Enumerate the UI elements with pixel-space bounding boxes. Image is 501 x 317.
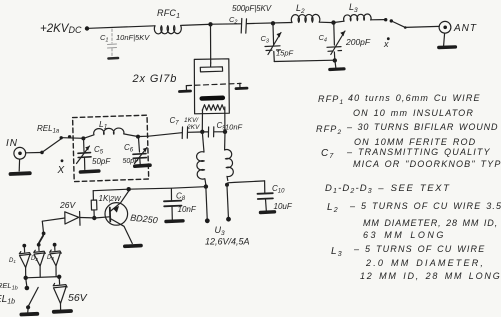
wire heater right leg down — [224, 107, 226, 131]
svg-text:2x GI7b: 2x GI7b — [132, 73, 178, 85]
wire supply to RFC1 — [89, 26, 155, 29]
node U3 left terminal — [205, 218, 210, 223]
svg-text:1K|2W: 1K|2W — [99, 194, 123, 203]
svg-text:U3: U3 — [215, 225, 226, 237]
tube cathode bar — [202, 96, 223, 101]
svg-text:x: x — [383, 39, 389, 49]
wire anode node to C2 — [213, 23, 241, 25]
inductor L3 — [344, 2, 372, 21]
diode zener 26V — [42, 200, 94, 225]
svg-text:C7: C7 — [321, 148, 334, 160]
svg-text:63 MM LONG: 63 MM LONG — [363, 230, 446, 240]
svg-text:C3: C3 — [261, 34, 270, 45]
wire IN to REL1a — [26, 152, 40, 154]
note RFP1 definition — [318, 93, 481, 118]
svg-text:REL1b: REL1b — [0, 281, 18, 292]
svg-text:– 5 TURNS OF CU WIRE: – 5 TURNS OF CU WIRE — [353, 244, 485, 254]
dashed box input tank — [73, 115, 149, 181]
svg-text:40 turns 0,6mm Cu WIRE: 40 turns 0,6mm Cu WIRE — [348, 93, 481, 103]
inductor RFP2 left filament choke — [197, 132, 206, 185]
svg-text:L2: L2 — [296, 3, 305, 15]
svg-text:500pF|5KV: 500pF|5KV — [232, 4, 272, 13]
tube heater zigzag — [202, 105, 224, 111]
tube V1 2x GI7b envelope — [132, 59, 230, 114]
svg-text:D1: D1 — [9, 258, 16, 264]
svg-text:C6: C6 — [124, 143, 134, 154]
node L2/L3/C4 junction — [331, 20, 335, 24]
note RFP2 definition — [316, 122, 498, 147]
svg-text:15pF: 15pF — [276, 49, 294, 58]
node cathode right / C9 — [223, 130, 227, 134]
svg-text:L2: L2 — [327, 202, 339, 214]
svg-text:BD250: BD250 — [130, 213, 158, 226]
node tank right junction — [136, 135, 140, 139]
label x mark near switch — [383, 37, 390, 49]
inductor RFP2 right filament choke — [225, 132, 234, 181]
svg-text:REL1a: REL1a — [37, 124, 60, 135]
wire C3 bottom to C4 bottom — [274, 60, 335, 61]
wire filament right to C10 — [228, 181, 265, 183]
svg-text:ON 10 mm INSULATOR: ON 10 mm INSULATOR — [353, 108, 474, 118]
svg-text:56V: 56V — [68, 292, 88, 304]
svg-text:C5: C5 — [94, 145, 104, 156]
wire L2 to L3 — [320, 21, 345, 22]
node tank left junction — [81, 136, 85, 140]
node anode junction — [208, 22, 212, 26]
wire filament left to U3 dot — [206, 188, 207, 219]
svg-text:RFC1: RFC1 — [157, 8, 180, 20]
svg-text:26V: 26V — [59, 200, 76, 210]
wire RFC1 to anode node — [182, 24, 209, 25]
wire 26V diode down to relay switch — [42, 221, 43, 231]
svg-text:IN: IN — [6, 138, 18, 149]
node cathode left / C7 — [200, 130, 204, 134]
capacitor C1 10nF/5KV bypass — [100, 29, 150, 59]
svg-text:– 30 TURNS BIFILAR WOUND: – 30 TURNS BIFILAR WOUND — [346, 122, 498, 132]
ground under C4 — [330, 61, 344, 70]
switch REL1b — [21, 286, 38, 315]
svg-text:MM DIAMETER, 28 MM ID,: MM DIAMETER, 28 MM ID, — [363, 218, 498, 228]
capacitor C3 15pF variable — [261, 25, 294, 62]
tube anode plate — [200, 63, 222, 72]
svg-text:+2KVDC: +2KVDC — [40, 23, 82, 35]
tube grid dashed line — [187, 83, 242, 85]
wire tank to C7 — [140, 135, 149, 137]
node collector rail at transistor — [127, 187, 131, 191]
wire node down to tube anode — [210, 26, 212, 63]
note D1-D2-D3 definition — [325, 183, 451, 195]
svg-text:2.0 MM DIAMETER,: 2.0 MM DIAMETER, — [365, 258, 485, 268]
switch REL1a — [37, 124, 71, 154]
label X mark under REL1a — [57, 159, 65, 176]
wire switch to ANT connector — [405, 26, 439, 27]
label REL1b left margin — [0, 281, 18, 306]
wire bus to REL1b contact — [25, 280, 28, 286]
inductor L1 — [83, 119, 137, 138]
resistor 1K 2W — [91, 194, 122, 217]
node supply input dot — [85, 26, 89, 30]
node U3 right terminal — [226, 217, 231, 222]
wire diode bus bottom — [26, 277, 60, 278]
svg-text:D1-D2-D3 – SEE TEXT: D1-D2-D3 – SEE TEXT — [325, 183, 451, 195]
svg-text:– TRANSMITTING QUALITY: – TRANSMITTING QUALITY — [346, 147, 491, 157]
svg-text:50pF: 50pF — [123, 158, 140, 165]
connector ANT — [439, 21, 477, 47]
svg-text:ON 10MM FERITE ROD: ON 10MM FERITE ROD — [354, 137, 476, 147]
wire L3 to antenna switch — [371, 19, 384, 21]
node C4 bottom — [333, 58, 337, 62]
svg-text:200pF: 200pF — [345, 37, 371, 47]
note L2 definition — [327, 201, 501, 240]
svg-text:– 5 TURNS OF CU WIRE 3.5: – 5 TURNS OF CU WIRE 3.5 — [349, 201, 501, 211]
svg-text:ANT: ANT — [453, 23, 477, 34]
svg-text:EL1b: EL1b — [0, 294, 15, 306]
switch REL1c to divider — [39, 232, 46, 244]
capacitor C7 input coupling — [149, 116, 201, 139]
label +2KVDC supply — [40, 23, 82, 35]
ground grid right — [236, 83, 247, 88]
svg-text:X: X — [57, 165, 65, 176]
svg-text:12 MM ID, 28 MM LONG: 12 MM ID, 28 MM LONG — [360, 271, 501, 281]
diode zener D2 — [31, 243, 45, 277]
node bus left — [24, 276, 28, 280]
diode zener 56V — [53, 279, 87, 312]
svg-text:50pF: 50pF — [92, 157, 111, 166]
capacitor C10 10uF — [258, 181, 293, 213]
ground grid left — [180, 86, 191, 92]
note C7 definition — [321, 147, 501, 169]
wire transistor collector rail — [93, 187, 205, 191]
node C2/C3/L2 junction — [271, 21, 275, 25]
label U3 12,6V/4,5A filament supply — [205, 225, 250, 247]
wire REL1a to tank — [63, 137, 84, 140]
svg-text:C4: C4 — [319, 33, 327, 44]
node bus right — [57, 275, 61, 279]
switch antenna relay contact — [384, 18, 407, 29]
capacitor C5 50pF variable — [77, 140, 112, 172]
svg-text:10nF: 10nF — [178, 205, 197, 214]
svg-text:RFP2: RFP2 — [316, 124, 342, 136]
transistor Q1 BD250 — [96, 191, 158, 246]
node filament left bottom junction — [204, 184, 208, 188]
svg-text:10uF: 10uF — [274, 202, 293, 211]
wire filament right to U3 dot — [227, 186, 228, 217]
svg-text:C7: C7 — [170, 116, 180, 127]
svg-text:10nF|5KV: 10nF|5KV — [116, 33, 150, 42]
node base junction — [92, 216, 96, 220]
svg-text:C2: C2 — [229, 15, 237, 26]
svg-text:C10: C10 — [272, 184, 285, 195]
svg-text:10nF: 10nF — [225, 123, 243, 132]
wire rail corner down to resistor — [92, 191, 94, 200]
wire heater left leg down — [201, 110, 203, 131]
inductor L2 — [291, 3, 320, 23]
diode zener D3 — [47, 243, 61, 277]
diode zener D1 — [9, 244, 31, 278]
capacitor C2 500pF/5KV — [229, 4, 272, 33]
wire C2 to L2 node — [247, 23, 292, 24]
svg-text:L3: L3 — [331, 246, 343, 258]
capacitor C4 200pF variable — [319, 25, 371, 61]
svg-text:MICA OR "DOORKNOB" TYPE: MICA OR "DOORKNOB" TYPE — [353, 159, 501, 169]
capacitor C8 10nF — [164, 189, 197, 222]
note L3 definition — [331, 244, 501, 281]
node filament right bottom junction — [225, 183, 229, 187]
svg-text:12,6V/4,5A: 12,6V/4,5A — [205, 237, 250, 247]
svg-text:C1: C1 — [100, 33, 108, 44]
connector IN — [6, 138, 30, 174]
capacitor C9 10nF — [204, 121, 243, 137]
svg-text:1KV/: 1KV/ — [184, 117, 199, 124]
inductor RFC1 — [154, 8, 181, 34]
capacitor C6 50pF variable — [123, 138, 151, 166]
svg-text:L3: L3 — [349, 2, 358, 14]
